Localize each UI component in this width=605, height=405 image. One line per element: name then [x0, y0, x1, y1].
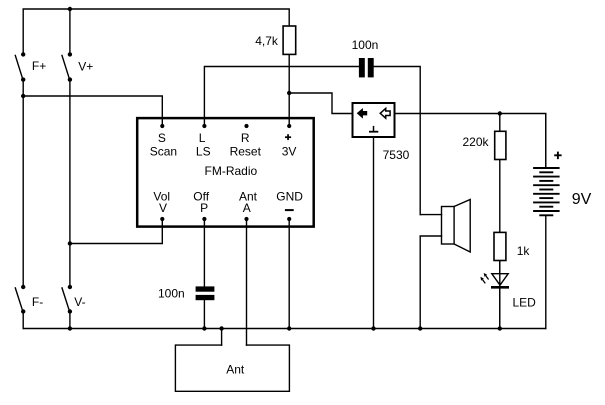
svg-text:L: L — [199, 131, 206, 145]
svg-text:LED: LED — [513, 295, 537, 309]
svg-text:FM-Radio: FM-Radio — [205, 164, 258, 178]
svg-text:9V: 9V — [572, 191, 592, 208]
svg-text:V+: V+ — [78, 60, 93, 74]
svg-text:F-: F- — [32, 295, 43, 309]
svg-text:LS: LS — [196, 144, 211, 158]
svg-text:100n: 100n — [158, 286, 185, 300]
svg-text:V-: V- — [74, 295, 85, 309]
svg-text:R: R — [241, 131, 250, 145]
svg-text:A: A — [243, 201, 251, 215]
svg-text:GND: GND — [276, 189, 303, 203]
svg-text:100n: 100n — [352, 38, 379, 52]
svg-text:V: V — [159, 201, 167, 215]
svg-text:4,7k: 4,7k — [255, 34, 279, 48]
svg-text:3V: 3V — [282, 144, 297, 158]
svg-text:Scan: Scan — [150, 144, 177, 158]
svg-text:220k: 220k — [463, 135, 490, 149]
svg-text:Ant: Ant — [226, 362, 245, 376]
svg-text:S: S — [158, 131, 166, 145]
svg-text:F+: F+ — [32, 59, 46, 73]
svg-text:7530: 7530 — [383, 148, 410, 162]
svg-text:1k: 1k — [517, 244, 531, 258]
svg-text:P: P — [200, 201, 208, 215]
svg-text:Reset: Reset — [230, 144, 262, 158]
